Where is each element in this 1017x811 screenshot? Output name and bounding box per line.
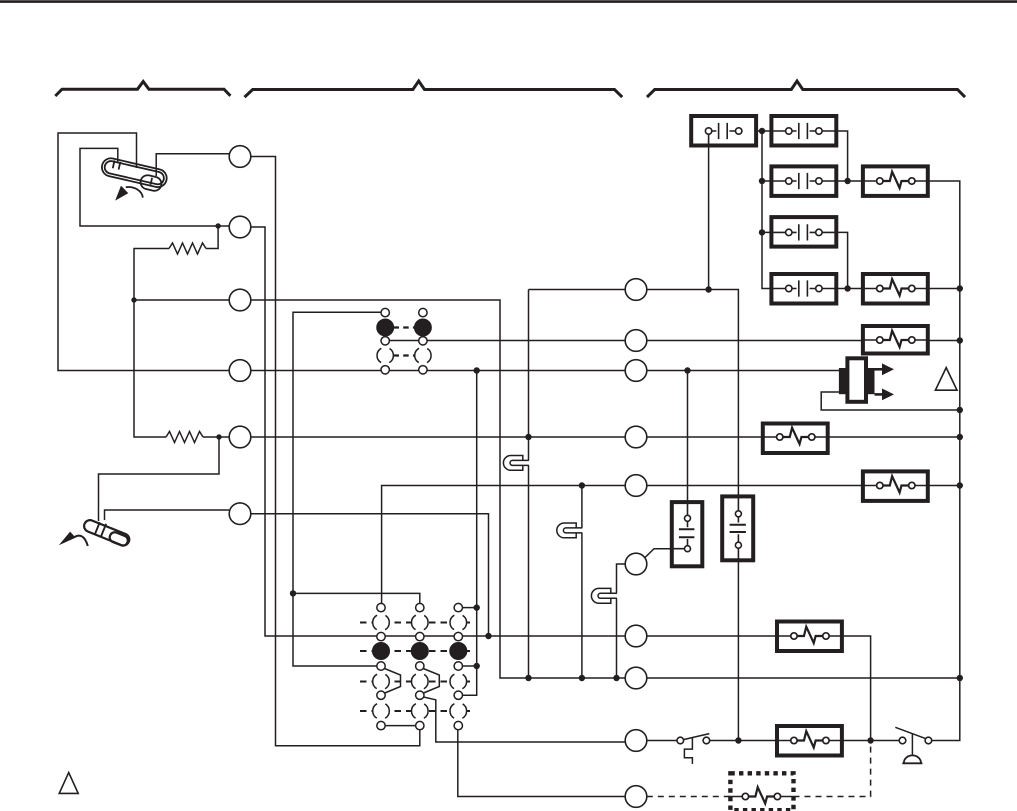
junction (959.8,437) — [957, 434, 963, 440]
horn arrow bottom — [875, 393, 884, 396]
col1 open contact — [377, 347, 393, 363]
resistor box R3 — [863, 326, 928, 354]
wire tall box2 bottom bus — [737, 560, 739, 740]
col1 closed contact — [377, 319, 393, 335]
col2 open contact — [415, 347, 431, 363]
wire mid terminal row340 to resistor box r3 — [647, 340, 960, 342]
junction (488.5,636) — [485, 633, 491, 639]
wire box A drop lead — [708, 145, 710, 290]
junction (738.4,740.5) — [735, 737, 741, 743]
wire tall box1 feed from row370 — [687, 371, 689, 503]
junction (528.5,678) — [525, 675, 531, 681]
terminal m1 — [625, 279, 647, 301]
wire row 740 left lead from col B linkage — [424, 697, 626, 742]
junction (959.8,410) — [957, 407, 963, 413]
switch box D — [771, 217, 836, 247]
terminal 6 — [229, 503, 251, 525]
terminal 1 — [229, 146, 251, 168]
terminal m5 — [625, 475, 647, 497]
wire terminal289 row right to tall box2 — [647, 290, 739, 497]
switch box A — [691, 116, 756, 146]
junction (870.6,740.5) — [867, 737, 873, 743]
brace middle — [245, 81, 623, 97]
wire switch sw1 lever — [683, 734, 709, 740]
tall contact box T2 — [722, 496, 753, 560]
junction (219,437) — [216, 434, 221, 439]
junction (959.8,678) — [957, 675, 963, 681]
brace left — [55, 82, 230, 97]
wire branch to lower block col B top — [293, 593, 420, 603]
wire bottom link col A to col B — [381, 725, 420, 727]
linkage bracket col A — [385, 669, 401, 694]
wire row 740 right: switches and resistor box r7 — [647, 740, 899, 742]
junction (616.5,678) — [613, 675, 619, 681]
terminal m9 — [625, 730, 647, 752]
wire r2 to terminal5 — [203, 436, 229, 438]
wire terminal1 left lead from key — [156, 154, 229, 176]
junction (476.7,666) — [474, 663, 480, 669]
junction (581.9,485.5) — [579, 482, 585, 488]
bell dome under sw2 — [904, 755, 921, 762]
wire top contact block feed — [293, 312, 381, 666]
lamp U3 — [591, 588, 617, 603]
dotted resistor box — [730, 773, 793, 810]
wire branch dot to resistor r1 — [206, 226, 218, 249]
coupling dash top block row dashed — [394, 354, 415, 356]
wire top contact row to mid terminal — [381, 340, 625, 342]
terminal m4 — [625, 426, 647, 448]
wire col C mid tap — [463, 665, 477, 667]
wire col C bottom drop to terminal 797 — [458, 730, 625, 797]
wire branch to terminal3 — [134, 299, 229, 301]
wire bus 762 from box A row down to box E — [762, 131, 771, 289]
page top rule — [0, 0, 1017, 3]
wire terminal6 row to drop — [251, 514, 489, 636]
coupling dash lower block rows — [360, 622, 473, 624]
brace right — [647, 81, 965, 97]
wire box E row to resistor box r2 — [836, 288, 959, 290]
linkage bracket col B — [423, 669, 439, 694]
ignition key symbol 2 — [82, 516, 132, 547]
colB contacts — [416, 603, 424, 611]
colC contacts — [454, 603, 462, 611]
switch box C — [771, 166, 836, 196]
wire lamp bus u1 — [528, 290, 530, 679]
horn buzzer — [839, 358, 894, 402]
col2 small contacts — [419, 308, 427, 316]
wire terminal564 to tall box1 bottom — [645, 549, 672, 558]
junction (959.8,340.5) — [957, 337, 963, 343]
lamp U1 — [503, 456, 529, 471]
junction (762,181) — [759, 178, 765, 184]
wire terminal289 row left corner — [529, 289, 626, 291]
junction (581.9,678) — [579, 675, 585, 681]
coupling dash top block row filled — [394, 326, 415, 328]
junction (959.8,485.5) — [957, 482, 963, 488]
wire box B out down to box C row — [836, 131, 847, 181]
wire terminal3 row to right drop and bottom collector row — [251, 300, 961, 678]
terminal 3 — [229, 289, 251, 311]
terminal m2 — [625, 330, 647, 352]
key 1 rotation arrow — [115, 186, 143, 201]
junction (476.7,607.6) — [474, 604, 480, 610]
wire right bus — [928, 181, 960, 741]
wire box D row and out down to box E row — [762, 232, 848, 288]
switch sw2 contacts — [899, 737, 932, 744]
wire branch terminal5 to key2 — [99, 437, 220, 521]
terminal m10 — [625, 786, 647, 808]
horn arrow top — [875, 368, 884, 371]
dashed wire dotted box to dot under sw1 row — [794, 744, 871, 797]
resistor r2 — [166, 432, 203, 443]
ignition key symbol 1 — [99, 157, 168, 194]
wire r1 to r2 vertical link — [134, 249, 169, 438]
resistor box R1 — [863, 166, 928, 196]
wire box A to box B link — [756, 130, 771, 132]
wire terminal2 right lead: bus down to contact row — [251, 227, 625, 636]
wire row 636 right to drop — [647, 636, 871, 741]
junction (687.5,370.5) — [684, 367, 690, 373]
resistor box R5 — [863, 471, 928, 501]
switch box B — [771, 116, 836, 146]
wire terminal4 long row (left rail to horn) — [251, 370, 840, 372]
dashed wire terminal797 to dotted box — [647, 796, 731, 798]
wire lamp bus u3 — [617, 564, 626, 678]
junction (528.5,437) — [525, 434, 531, 440]
colA contacts — [377, 603, 385, 611]
terminal m3 — [625, 360, 647, 382]
terminal 5 — [229, 426, 251, 448]
wire box C row to resistor box r1 — [762, 180, 863, 182]
wire col C top tap — [463, 607, 477, 609]
switch sw1 contacts — [677, 737, 710, 744]
resistor box R2 — [863, 274, 928, 304]
wire switch sw2 lever — [895, 727, 925, 738]
col2 closed contact — [415, 319, 431, 335]
connector terminals middle column — [625, 279, 647, 808]
col1 small contacts — [381, 308, 389, 316]
terminal m8 — [625, 667, 647, 689]
terminal 4 — [229, 360, 251, 382]
junction (476.7,370.5) — [474, 367, 480, 373]
junction (708.6,289.5) — [705, 286, 711, 292]
resistor r1 — [169, 243, 206, 254]
contact block upper: switch contacts — [377, 308, 431, 374]
wire horn lower lead to bus — [821, 392, 960, 410]
terminal m6 — [625, 553, 647, 575]
junction (134,300) — [131, 297, 136, 302]
contact block lower: switch contacts — [373, 603, 467, 729]
junction (762,131) — [759, 128, 765, 134]
key 2 rotation arrow — [59, 532, 88, 546]
wire row 485 with drop to col A top — [382, 486, 626, 604]
resistor box R4 — [763, 424, 828, 454]
triangle marker bottom-left — [59, 773, 78, 794]
junction (959.8,288.5) — [957, 285, 963, 291]
junction (847.6,181) — [844, 178, 850, 184]
connector terminals left column — [229, 146, 251, 525]
junction (762,232.4) — [759, 229, 765, 235]
wire sw2 plunger — [911, 734, 913, 756]
wire outer loop: key center lead, top-left rail, left rail down to terminal row — [58, 133, 229, 371]
wire terminal1 right lead: bus down to contact block col B bottom — [251, 157, 420, 746]
terminal 2 — [229, 216, 251, 238]
wire inner loop: key left lead to terminal 2 — [80, 148, 229, 226]
wire sw1 actuator step — [684, 738, 692, 764]
wire terminal row 437 — [251, 436, 960, 438]
wire vertical bus col C feed — [463, 371, 477, 696]
wire lamp bus u2 — [581, 486, 583, 679]
resistor box R7 — [777, 726, 842, 756]
wire terminal6 to key2 — [105, 510, 230, 520]
resistor box R6 — [777, 622, 842, 652]
lamp U2 — [557, 523, 583, 538]
switch box E — [771, 274, 836, 304]
terminal m7 — [625, 625, 647, 647]
junction (218.1,226) — [215, 223, 220, 228]
junction (847.6,288.5) — [844, 285, 850, 291]
triangle marker right — [935, 368, 957, 391]
wire row 485 right to resistor box r5 — [647, 485, 960, 487]
junction (293,593.4) — [290, 590, 296, 596]
tall contact box T1 — [672, 502, 703, 566]
